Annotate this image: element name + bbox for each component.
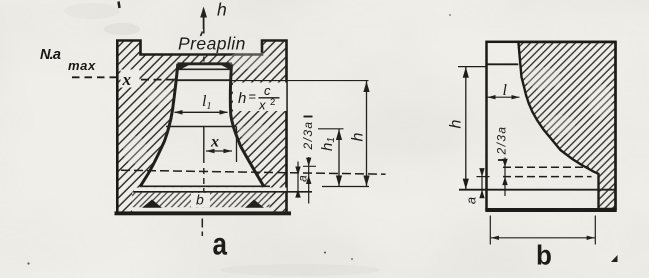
stray mark bottom right [611, 255, 618, 262]
left flank [140, 64, 178, 187]
foundation level dash line [121, 170, 386, 174]
stray dots [324, 252, 326, 254]
white patch behind x mark [121, 70, 140, 88]
crest level extension line [231, 80, 369, 82]
slab top line 1 [142, 185, 270, 187]
crest left dart [178, 64, 189, 71]
crest water level line [177, 79, 231, 81]
construction line [166, 126, 237, 128]
spillway profile (white) [140, 63, 265, 188]
white patch behind b label [191, 193, 210, 207]
dimension a (fig b) [481, 170, 483, 197]
dimension 2/3a (fig b) [504, 158, 506, 197]
dimension l1 [175, 111, 228, 113]
bottom bar [485, 208, 616, 212]
scan fade spots [228, 51, 272, 69]
dam body hatched [518, 42, 615, 209]
water level dashes to crest [141, 79, 175, 81]
slab strip region [132, 193, 270, 208]
dimension x [206, 150, 232, 152]
extension tick 2/3a [303, 165, 316, 167]
dimension l [488, 96, 520, 98]
crest right dart [221, 64, 232, 71]
white band between slab lines [134, 188, 287, 192]
tick above 2/3a label [304, 116, 313, 118]
bottom dimension fig b [489, 216, 491, 245]
paper smudges [104, 23, 140, 35]
top-left strip bottom line [487, 63, 519, 65]
dashed level line 1 [503, 166, 589, 168]
dashed level line 2 [503, 176, 592, 178]
crest underline [178, 68, 231, 70]
right cutoff wedge [245, 200, 264, 208]
dimension a (right of block) [297, 162, 299, 197]
bottom slab bar [115, 211, 292, 215]
dam block (hatched, stepped top) [117, 41, 286, 214]
stray ink mark top [119, 2, 120, 9]
dimension h right [366, 81, 368, 187]
crest top edge [178, 62, 233, 65]
extension tick bottom [322, 186, 369, 188]
slab strip hatch [132, 193, 270, 208]
left cutoff wedge [142, 200, 162, 208]
extension tick h1 top [318, 128, 344, 130]
right flank [230, 64, 264, 187]
top arrow h [203, 9, 205, 29]
tick h top [458, 66, 487, 68]
centerline segments [203, 28, 205, 34]
water level dashes left [72, 76, 116, 78]
dimension h1 [338, 129, 340, 187]
formula white patch [233, 83, 286, 112]
slab top line 2 [134, 191, 312, 193]
white gap below strip [132, 207, 270, 212]
tick below 2/3a label fig b [498, 159, 507, 161]
base line [459, 189, 616, 191]
dimension h (fig b) [465, 67, 467, 190]
outer rectangle [487, 42, 616, 210]
tick a level [477, 176, 490, 178]
dimension 2/3a [308, 157, 310, 204]
vertical tick [236, 127, 238, 163]
